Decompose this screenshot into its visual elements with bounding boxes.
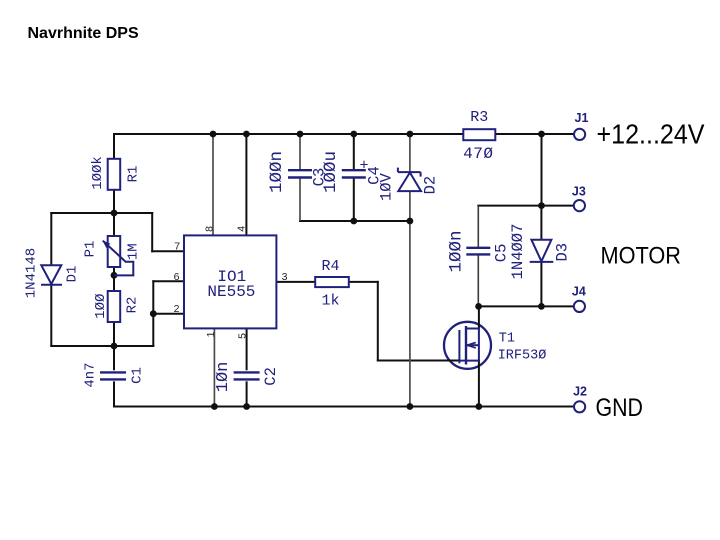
svg-text:1ØØu: 1ØØu xyxy=(321,151,341,193)
svg-text:GND: GND xyxy=(596,394,644,422)
svg-text:1k: 1k xyxy=(321,293,339,310)
svg-text:1ØØn: 1ØØn xyxy=(447,230,467,272)
svg-text:1ØØ: 1ØØ xyxy=(93,294,109,319)
svg-text:+: + xyxy=(359,158,368,175)
svg-text:6: 6 xyxy=(174,271,180,283)
svg-text:C2: C2 xyxy=(262,367,280,386)
svg-text:IRF53Ø: IRF53Ø xyxy=(498,349,547,364)
svg-text:J2: J2 xyxy=(573,384,587,398)
svg-text:R4: R4 xyxy=(321,258,339,275)
svg-text:J3: J3 xyxy=(572,184,586,198)
svg-text:J4: J4 xyxy=(572,284,586,298)
svg-text:P1: P1 xyxy=(82,241,98,258)
svg-text:1N4ØØ7: 1N4ØØ7 xyxy=(509,224,527,280)
svg-text:1: 1 xyxy=(205,331,217,337)
svg-text:C1: C1 xyxy=(129,367,145,384)
svg-text:1N4148: 1N4148 xyxy=(23,248,39,298)
svg-text:7: 7 xyxy=(174,241,180,253)
svg-text:NE555: NE555 xyxy=(207,283,255,301)
svg-text:8: 8 xyxy=(204,226,216,232)
svg-text:R1: R1 xyxy=(126,166,142,183)
svg-text:1ØØn: 1ØØn xyxy=(267,151,287,193)
svg-text:1ØV: 1ØV xyxy=(377,172,395,201)
svg-text:R3: R3 xyxy=(470,109,488,126)
svg-text:D1: D1 xyxy=(65,266,81,283)
svg-text:D2: D2 xyxy=(422,176,440,195)
svg-text:1ØØk: 1ØØk xyxy=(90,156,106,190)
svg-text:C5: C5 xyxy=(493,244,511,263)
svg-text:5: 5 xyxy=(237,333,249,339)
svg-text:D3: D3 xyxy=(554,243,572,262)
svg-text:MOTOR: MOTOR xyxy=(601,242,682,269)
svg-text:1Øn: 1Øn xyxy=(214,362,233,393)
svg-text:+12...24V: +12...24V xyxy=(597,118,705,149)
svg-text:T1: T1 xyxy=(499,332,515,347)
svg-text:47Ø: 47Ø xyxy=(463,145,493,163)
svg-text:J1: J1 xyxy=(575,111,589,125)
svg-text:1M: 1M xyxy=(126,243,142,260)
svg-text:4n7: 4n7 xyxy=(83,362,99,387)
svg-text:R2: R2 xyxy=(124,297,140,314)
svg-text:4: 4 xyxy=(235,226,247,232)
svg-text:3: 3 xyxy=(282,271,288,283)
svg-text:2: 2 xyxy=(174,303,180,315)
